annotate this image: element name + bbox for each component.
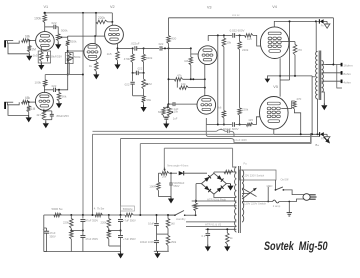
capacitor 0.022 600V coupling V4 bbox=[232, 33, 234, 38]
wire NFB bus top corner bbox=[168, 18, 170, 36]
resistor 1k V2B cathode bbox=[95, 61, 97, 63]
svg-text:500k: 500k bbox=[74, 55, 81, 59]
wire V3B grid cap from bus bbox=[172, 102, 174, 106]
svg-text:5000/2w: 5000/2w bbox=[123, 207, 133, 211]
wire into V4 grid bbox=[253, 35, 261, 46]
svg-text:8ohm: 8ohm bbox=[343, 72, 351, 76]
svg-text:220k: 220k bbox=[63, 221, 69, 225]
wire bottom mains bbox=[242, 201, 273, 203]
ground vol pot ch1 bbox=[57, 41, 59, 43]
svg-text:V5: V5 bbox=[273, 85, 278, 89]
power plug bbox=[303, 194, 310, 201]
wire routing A bbox=[93, 133, 274, 135]
resistor 100R bias bbox=[157, 182, 161, 190]
ground bottom clamp bbox=[326, 134, 328, 136]
svg-text:470: 470 bbox=[297, 48, 302, 52]
resistor 820k bbox=[143, 48, 145, 54]
resistor 10k tail 2 bbox=[176, 79, 178, 87]
svg-text:47uF 350V: 47uF 350V bbox=[85, 219, 98, 223]
wire V3B cathode drop line bbox=[206, 125, 320, 137]
wire 16ohm tap bbox=[322, 64, 341, 66]
svg-text:16ohm: 16ohm bbox=[343, 64, 353, 68]
wire wiper to V2 grid line bbox=[63, 36, 68, 38]
wire B+ rail preamp bbox=[45, 12, 113, 14]
svg-text:1uF: 1uF bbox=[173, 117, 178, 121]
resistor 220k V2 plate load bbox=[96, 20, 108, 24]
transformer OT core bbox=[318, 51, 320, 101]
wire 220k left to grid junction bbox=[95, 22, 97, 36]
wire cathode row V5 bbox=[274, 133, 320, 135]
wire bridge bottom to PT bbox=[214, 194, 236, 197]
transformer OT primary bbox=[316, 52, 318, 99]
tube V4 power pentode bbox=[260, 27, 289, 59]
svg-text:Fu: Fu bbox=[244, 162, 248, 166]
svg-text:B+: B+ bbox=[316, 143, 320, 147]
svg-text:5k6: 5k6 bbox=[217, 106, 222, 110]
resistor 100k V1B plate bbox=[43, 80, 47, 87]
svg-text:500R 5w: 500R 5w bbox=[51, 207, 63, 211]
svg-text:220k: 220k bbox=[242, 108, 249, 112]
ground V2B cathode bbox=[95, 71, 97, 72]
chassis ground mains bbox=[288, 202, 290, 213]
svg-text:0.1: 0.1 bbox=[202, 234, 206, 238]
resistor group a bbox=[167, 215, 169, 218]
svg-text:68k: 68k bbox=[25, 34, 31, 38]
resistor 100k V1A plate bbox=[43, 15, 47, 23]
wire bridge top to PT bbox=[213, 172, 215, 173]
ground 500k ch2 bbox=[58, 101, 60, 103]
resistor 500R 5w bbox=[54, 213, 62, 217]
svg-text:220k: 220k bbox=[100, 221, 106, 225]
wire routing ends right bbox=[310, 134, 312, 142]
wire right bus from rail bbox=[289, 21, 291, 80]
wire V1A cathode bbox=[40, 47, 42, 53]
pot hum balance bbox=[161, 171, 169, 175]
capacitor filter 47uF b bbox=[80, 235, 85, 237]
resistor 1M grid leak ch1 bbox=[28, 41, 30, 46]
resistor 47k NFB bbox=[174, 78, 182, 82]
capacitor 022 PI input bbox=[159, 46, 161, 50]
resistor 470 V5 screen bbox=[281, 108, 292, 110]
wire 220k top connect bbox=[95, 13, 97, 22]
wire V2B grid mix node bbox=[67, 36, 69, 40]
resistor pilot bbox=[194, 203, 198, 211]
resistor 820 NFB bus bbox=[167, 36, 171, 44]
wire V2B plate to grid junction bbox=[94, 36, 96, 44]
svg-text:HTR V1 & V2: HTR V1 & V2 bbox=[205, 223, 222, 227]
capacitor 022 treble bbox=[134, 46, 136, 50]
svg-text:47k: 47k bbox=[177, 73, 182, 77]
jack 16ohm bbox=[341, 63, 343, 67]
transformer PT primary bbox=[242, 170, 244, 222]
resistor 10k V3A plate load bbox=[222, 38, 226, 47]
svg-text:20k: 20k bbox=[162, 175, 167, 179]
wire V5 cathode bbox=[273, 129, 275, 134]
resistor 470 V4 screen bbox=[281, 41, 295, 43]
resistor inrush bbox=[224, 170, 233, 174]
capacitor 022 coupling V1B bbox=[53, 88, 55, 92]
svg-text:1M: 1M bbox=[148, 82, 153, 86]
resistor 220k divider b bbox=[70, 231, 74, 240]
ground OT secondary bbox=[323, 103, 325, 105]
wire box to switch bbox=[275, 180, 277, 190]
wire V4 cathode bbox=[279, 58, 281, 76]
svg-text:2 amp: 2 amp bbox=[273, 204, 281, 208]
resistor 100R presence bbox=[162, 108, 166, 115]
wire bridge right to ground bbox=[226, 183, 230, 185]
heater line 1 bbox=[192, 200, 237, 202]
wire rail to standby bbox=[169, 214, 175, 216]
wire NFB line from 16ohm tap bbox=[169, 17, 334, 19]
svg-text:On/Off: On/Off bbox=[281, 178, 289, 182]
fuse F1 bbox=[273, 200, 280, 203]
ground cathode V1A bbox=[40, 62, 42, 64]
capacitor filter 10uF d bbox=[118, 235, 123, 237]
wire OT secondary bottom to ground bbox=[322, 92, 325, 103]
resistor heater bleeder bbox=[226, 229, 228, 233]
bridge rectifier BR1 bbox=[201, 173, 226, 194]
svg-text:1M: 1M bbox=[184, 59, 189, 63]
svg-text:68k: 68k bbox=[25, 96, 31, 100]
svg-text:V3: V3 bbox=[207, 6, 212, 10]
wire PI out row 2 bbox=[205, 118, 207, 125]
wire routing C bbox=[140, 143, 311, 145]
diode bottom clamp bbox=[320, 132, 324, 136]
pot 500k volume ch1 bbox=[56, 34, 60, 41]
wire heater mid bbox=[206, 228, 237, 230]
wire bias line upper bbox=[93, 130, 217, 132]
wire bass to pot bottom bbox=[133, 95, 144, 97]
capacitor bypass V1B bbox=[44, 110, 52, 112]
wire OT primary bottom down bbox=[317, 99, 319, 134]
svg-text:022: 022 bbox=[51, 21, 56, 25]
svg-text:470: 470 bbox=[296, 97, 301, 101]
wire V2A out to tone caps bbox=[118, 47, 132, 49]
svg-text:.022uF: .022uF bbox=[131, 42, 140, 46]
resistor 500k to ground ch2 bbox=[58, 90, 60, 93]
svg-text:820: 820 bbox=[171, 37, 176, 41]
wire standby to PT bbox=[185, 214, 196, 216]
svg-text:4ohm: 4ohm bbox=[343, 80, 351, 84]
tube V1B bbox=[35, 92, 53, 110]
svg-text:022: 022 bbox=[125, 83, 130, 87]
svg-text:820k: 820k bbox=[70, 39, 77, 43]
presence network bbox=[168, 104, 170, 107]
wire screen bus vertical bbox=[82, 13, 84, 215]
resistor 220k V4 grid leak bbox=[239, 35, 241, 41]
svg-text:022: 022 bbox=[138, 67, 143, 71]
wire V5 plate up bbox=[279, 76, 281, 97]
svg-text:1k5: 1k5 bbox=[107, 52, 112, 56]
capacitor bypass V1A bbox=[46, 55, 50, 57]
resistor 68k grid stopper ch2 bbox=[22, 100, 29, 104]
ground V4 cathode bbox=[267, 76, 280, 79]
svg-text:56k: 56k bbox=[146, 98, 151, 102]
transformer PT secondary bbox=[235, 167, 237, 232]
transformer OT secondary bbox=[322, 61, 324, 93]
wire V2 plate drop bbox=[111, 13, 113, 22]
resistor 4.7k 5w bbox=[95, 213, 103, 217]
wire routing B bbox=[121, 138, 232, 140]
resistor 1k5 V4 grid stopper bbox=[245, 34, 253, 38]
switch on/off bbox=[276, 187, 283, 190]
capacitor 0.022 600V coupling V5 bbox=[232, 122, 234, 127]
wire PI out row 1 bbox=[218, 34, 232, 36]
wire routing D hum bbox=[164, 147, 232, 149]
wire to PI input cap bbox=[144, 47, 159, 49]
wire V3A grid bbox=[195, 53, 198, 55]
resistor 1k5 cathode V1A bbox=[40, 52, 44, 62]
resistor 1M V3A grid leak bbox=[189, 57, 193, 65]
svg-text:+7uF 350V: +7uF 350V bbox=[123, 237, 136, 241]
svg-text:10k: 10k bbox=[181, 82, 186, 86]
svg-text:120V 220V Switch: 120V 220V Switch bbox=[244, 201, 266, 205]
resistor 1k5 V5 grid stopper bbox=[246, 123, 252, 127]
tube V1A bbox=[36, 32, 55, 51]
ground tone stack bbox=[143, 103, 145, 106]
svg-text:V2: V2 bbox=[110, 5, 115, 9]
wire B+ rail PS bbox=[44, 214, 125, 216]
capacitor 022 mid bbox=[135, 71, 137, 75]
box voltage selector bbox=[240, 170, 277, 180]
wire V4 plate to rail bbox=[273, 21, 276, 27]
wire V4 plate line bbox=[275, 20, 319, 22]
capacitor presence bbox=[164, 115, 170, 117]
selector switch wires bbox=[242, 188, 257, 199]
resistor 1M grid leak ch2 bbox=[28, 102, 30, 106]
svg-text:150k: 150k bbox=[171, 240, 177, 244]
wire V2A grid bbox=[95, 35, 105, 37]
arrow B+ label bbox=[325, 139, 330, 144]
svg-text:Sovtek Mig-50: Sovtek Mig-50 bbox=[264, 240, 328, 253]
resistor group b bbox=[166, 236, 170, 246]
svg-text:1M: 1M bbox=[31, 47, 36, 51]
wire gray feed line bbox=[45, 74, 83, 76]
wire into V5 grid bbox=[253, 117, 260, 125]
capacitor filter 47uF a bbox=[82, 215, 84, 219]
resistor 470k slope bbox=[132, 48, 134, 54]
resistor 68k grid stopper ch1 bbox=[22, 39, 30, 43]
pot 500k box channel mix bbox=[65, 52, 73, 63]
resistor 56k tail bbox=[142, 96, 146, 103]
svg-text:100R: 100R bbox=[149, 184, 156, 188]
svg-text:MED: MED bbox=[267, 184, 273, 188]
svg-text:V4: V4 bbox=[272, 5, 277, 9]
wire 4ohm tap bbox=[322, 80, 341, 82]
svg-text:1k: 1k bbox=[89, 64, 93, 68]
wire V1A plate to coupling cap bbox=[45, 26, 54, 28]
svg-text:1k5: 1k5 bbox=[33, 54, 38, 58]
tube V2A bbox=[105, 25, 124, 44]
capacitor filter 10uF c bbox=[120, 215, 122, 219]
svg-text:1k5: 1k5 bbox=[247, 37, 252, 41]
wire right group tie bbox=[154, 250, 169, 252]
svg-text:New angle 4 6mm: New angle 4 6mm bbox=[167, 163, 188, 167]
ground 1M ch2 bbox=[28, 115, 30, 117]
resistor 4k7 V1B cathode bbox=[42, 111, 46, 120]
input jack J2 bbox=[4, 102, 6, 109]
capacitor 022 bass bbox=[132, 73, 134, 81]
diode top clamp bbox=[320, 19, 324, 23]
tube V2B bbox=[84, 43, 101, 60]
ground heater bleeder bbox=[226, 244, 228, 246]
svg-text:82: 82 bbox=[158, 110, 161, 114]
wire bridge left bbox=[196, 183, 201, 185]
resistor 1k5 V2A cathode bbox=[116, 51, 120, 60]
switch standby bbox=[175, 211, 184, 216]
vertical from PI row to lower row bbox=[217, 35, 219, 124]
jack 8ohm bbox=[341, 71, 343, 75]
capacitor group a bbox=[156, 215, 158, 223]
wire PS bottom rail bbox=[44, 251, 121, 253]
wire V3A plate up bbox=[207, 35, 209, 41]
svg-text:standby: standby bbox=[176, 217, 186, 221]
capacitor 50uF bias filter bbox=[169, 182, 172, 184]
svg-text:120V 220V Switch: 120V 220V Switch bbox=[243, 174, 265, 178]
svg-text:350V: 350V bbox=[49, 234, 55, 238]
wire divider tie bbox=[71, 230, 83, 232]
svg-text:4. 7k 5w: 4. 7k 5w bbox=[94, 207, 105, 211]
resistor on 10k drop bbox=[223, 47, 225, 111]
svg-text:56k: 56k bbox=[62, 95, 67, 99]
wire NFB corner down to speaker tap bbox=[326, 18, 334, 65]
svg-text:V1: V1 bbox=[44, 5, 49, 9]
svg-text:xxx xx: xxx xx bbox=[232, 14, 240, 17]
svg-text:10k: 10k bbox=[226, 41, 231, 45]
transformer PT core bbox=[238, 166, 240, 233]
svg-text:1k0: 1k0 bbox=[171, 222, 176, 226]
wire bottom join right bbox=[109, 245, 121, 247]
svg-text:+7uF 350V: +7uF 350V bbox=[123, 219, 136, 223]
heater line 3 bbox=[186, 221, 236, 223]
wire V1 plate feed bbox=[44, 13, 46, 15]
wire bias bottom bbox=[157, 190, 159, 196]
ground V1B cathode bbox=[45, 120, 47, 122]
capacitor heater balance bbox=[207, 229, 209, 233]
svg-text:47uF 350V: 47uF 350V bbox=[85, 237, 98, 241]
capacitor group b bbox=[154, 240, 159, 242]
resistor 220k V5 grid leak bbox=[238, 108, 242, 115]
tube V3B phase inverter bbox=[197, 96, 216, 115]
wire V3 cathode link bbox=[204, 65, 206, 96]
svg-text:500k: 500k bbox=[61, 28, 68, 32]
svg-text:0.1uF 400V: 0.1uF 400V bbox=[234, 139, 247, 142]
svg-text:0.022 600V: 0.022 600V bbox=[230, 29, 245, 33]
wire V2B grid bbox=[68, 50, 85, 52]
svg-text:10uF: 10uF bbox=[148, 222, 154, 226]
svg-text:220k: 220k bbox=[242, 48, 249, 52]
wire bias feed down bbox=[158, 172, 161, 174]
pot 1M volume bbox=[143, 73, 145, 79]
resistor 5000 2w bbox=[125, 213, 133, 217]
resistor 220k divider c bbox=[108, 215, 110, 219]
wire V1B plate coupling bbox=[44, 89, 53, 91]
ground 1M ch1 bbox=[28, 54, 30, 56]
wire hook to OT bbox=[312, 76, 315, 78]
wire switch to plug bbox=[283, 190, 304, 195]
wire selector mid tap down bbox=[267, 187, 269, 202]
ground right group bbox=[157, 251, 159, 253]
cathode network box V1A bbox=[38, 51, 50, 63]
svg-text:100uF 100V: 100uF 100V bbox=[140, 240, 154, 244]
node V2 out bbox=[132, 47, 134, 49]
wire 8ohm tap bbox=[322, 72, 341, 74]
wire cathode row right bbox=[280, 75, 312, 77]
svg-text:HTR V3 & Peak: HTR V3 & Peak bbox=[207, 197, 227, 201]
diode bias rectifier bbox=[169, 172, 177, 174]
heater line 4 bbox=[186, 226, 236, 228]
pot 10k presence bbox=[167, 108, 171, 116]
svg-text:10k: 10k bbox=[174, 109, 179, 113]
svg-text:550V: 550V bbox=[173, 184, 179, 188]
wire jack common bus bbox=[337, 65, 342, 89]
svg-text:470k: 470k bbox=[124, 57, 131, 61]
capacitor 022 coupling V1A bbox=[53, 25, 55, 29]
ground heater cap bbox=[207, 244, 209, 246]
jack 4ohm bbox=[341, 80, 343, 84]
tube V5 power pentode bbox=[260, 97, 289, 130]
tube V3A phase inverter bbox=[198, 46, 217, 65]
wire V1B cathode bbox=[43, 109, 45, 111]
node NFB presence bbox=[168, 103, 170, 105]
svg-text:022: 022 bbox=[159, 42, 164, 46]
wire V2A cathode bbox=[117, 44, 119, 51]
ground top clamp bbox=[326, 21, 328, 24]
input jack J1 bbox=[4, 40, 6, 47]
heater line 2 bbox=[192, 205, 237, 207]
svg-text:100k: 100k bbox=[34, 81, 41, 85]
svg-text:1M: 1M bbox=[31, 107, 36, 111]
resistor 220k divider a bbox=[70, 215, 72, 219]
svg-text:88uF/25V: 88uF/25V bbox=[57, 114, 70, 118]
svg-text:820k: 820k bbox=[146, 56, 153, 60]
resistor 220k divider d bbox=[107, 231, 111, 240]
svg-text:100k: 100k bbox=[34, 17, 41, 21]
ground PS main bbox=[120, 252, 122, 254]
svg-text:022: 022 bbox=[52, 84, 57, 88]
wire group tie bbox=[157, 233, 169, 235]
svg-text:0.68uF/25V: 0.68uF/25V bbox=[49, 55, 63, 59]
svg-text:4k7: 4k7 bbox=[36, 113, 41, 117]
ground presence bbox=[165, 122, 167, 124]
svg-text:220k: 220k bbox=[98, 16, 105, 20]
wire plate feed V1B bbox=[44, 75, 46, 80]
svg-text:1k5: 1k5 bbox=[248, 118, 253, 122]
resistor 820k mix bbox=[66, 40, 70, 46]
capacitor reservoir 47uF bbox=[43, 215, 45, 228]
wire divider tie 2 bbox=[109, 230, 121, 232]
ground V2A cathode bbox=[117, 60, 119, 62]
ground bias bbox=[170, 197, 172, 199]
